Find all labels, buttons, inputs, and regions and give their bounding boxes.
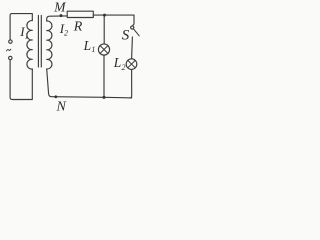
svg-text:1: 1 — [25, 32, 29, 41]
svg-text:L: L — [113, 55, 122, 70]
svg-text:2: 2 — [64, 29, 68, 38]
svg-text:N: N — [56, 100, 67, 115]
svg-text:2: 2 — [122, 63, 126, 72]
svg-text:M: M — [53, 0, 66, 14]
svg-text:1: 1 — [91, 45, 95, 54]
svg-text:L: L — [83, 38, 92, 53]
svg-text:R: R — [73, 20, 83, 35]
svg-text:S: S — [122, 28, 130, 44]
